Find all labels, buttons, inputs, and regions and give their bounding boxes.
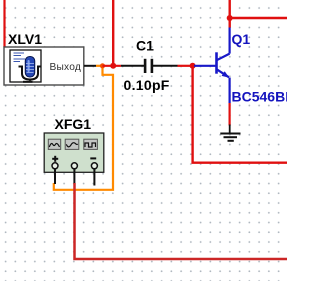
wire C1 to node C (red) bbox=[178, 65, 193, 67]
wire (clipped left vertical, red) bbox=[3, 0, 5, 47]
capacitor C1 bbox=[121, 59, 178, 73]
svg-text:0.10pF: 0.10pF bbox=[124, 77, 170, 93]
wire node C down and right (red) bbox=[193, 66, 287, 163]
wire emitter to ground (red) bbox=[229, 103, 231, 126]
value BC546BP bbox=[232, 89, 295, 105]
wire node D to collector (red) bbox=[228, 18, 230, 28]
pin stub XLV1 output bbox=[84, 65, 96, 67]
wire top to node D (red) bbox=[228, 0, 230, 18]
terminals bbox=[52, 163, 58, 169]
svg-text:Q1: Q1 bbox=[232, 31, 251, 47]
plus mark bbox=[52, 156, 58, 162]
tiny icon text lines bbox=[14, 53, 26, 62]
button sine bbox=[48, 139, 60, 149]
junction node C bbox=[190, 63, 196, 69]
pin stubs bbox=[54, 169, 56, 184]
pin name Выход bbox=[50, 62, 81, 73]
button square bbox=[84, 139, 98, 149]
svg-text:BC546BP: BC546BP bbox=[232, 89, 288, 105]
ground bbox=[220, 125, 240, 141]
label C1 bbox=[136, 38, 154, 54]
wire node D to right edge (red) bbox=[230, 17, 287, 19]
svg-text:XLV1: XLV1 bbox=[8, 31, 42, 47]
junction node D bbox=[227, 15, 233, 21]
transistor Q1 (BJT NPN) bbox=[194, 27, 230, 103]
microphone instrument XLV1 bbox=[4, 47, 84, 85]
svg-text:Выход: Выход bbox=[50, 62, 81, 73]
wire node A to XFG1 plus terminal (orange) bbox=[54, 66, 113, 190]
svg-text:XFG1: XFG1 bbox=[55, 116, 92, 132]
junction node A bbox=[100, 63, 105, 68]
value 0.10pF bbox=[124, 77, 170, 93]
label Q1 bbox=[232, 31, 251, 47]
minus mark bbox=[90, 157, 96, 159]
label XLV1 bbox=[8, 31, 42, 47]
mic capsule bbox=[25, 57, 34, 78]
label XFG1 bbox=[55, 116, 92, 132]
function generator XFG1 bbox=[44, 133, 104, 186]
wire XFG1 common to bottom right (red) bbox=[75, 183, 288, 259]
wire node A to C1 (red) bbox=[103, 65, 122, 67]
mic U holder bbox=[19, 66, 42, 81]
svg-text:C1: C1 bbox=[136, 38, 154, 54]
junction node B bbox=[110, 63, 116, 69]
wire top to node B (red) bbox=[112, 0, 114, 66]
wire XLV1 output to node A (orange) bbox=[96, 65, 103, 67]
button triangle bbox=[65, 139, 79, 149]
